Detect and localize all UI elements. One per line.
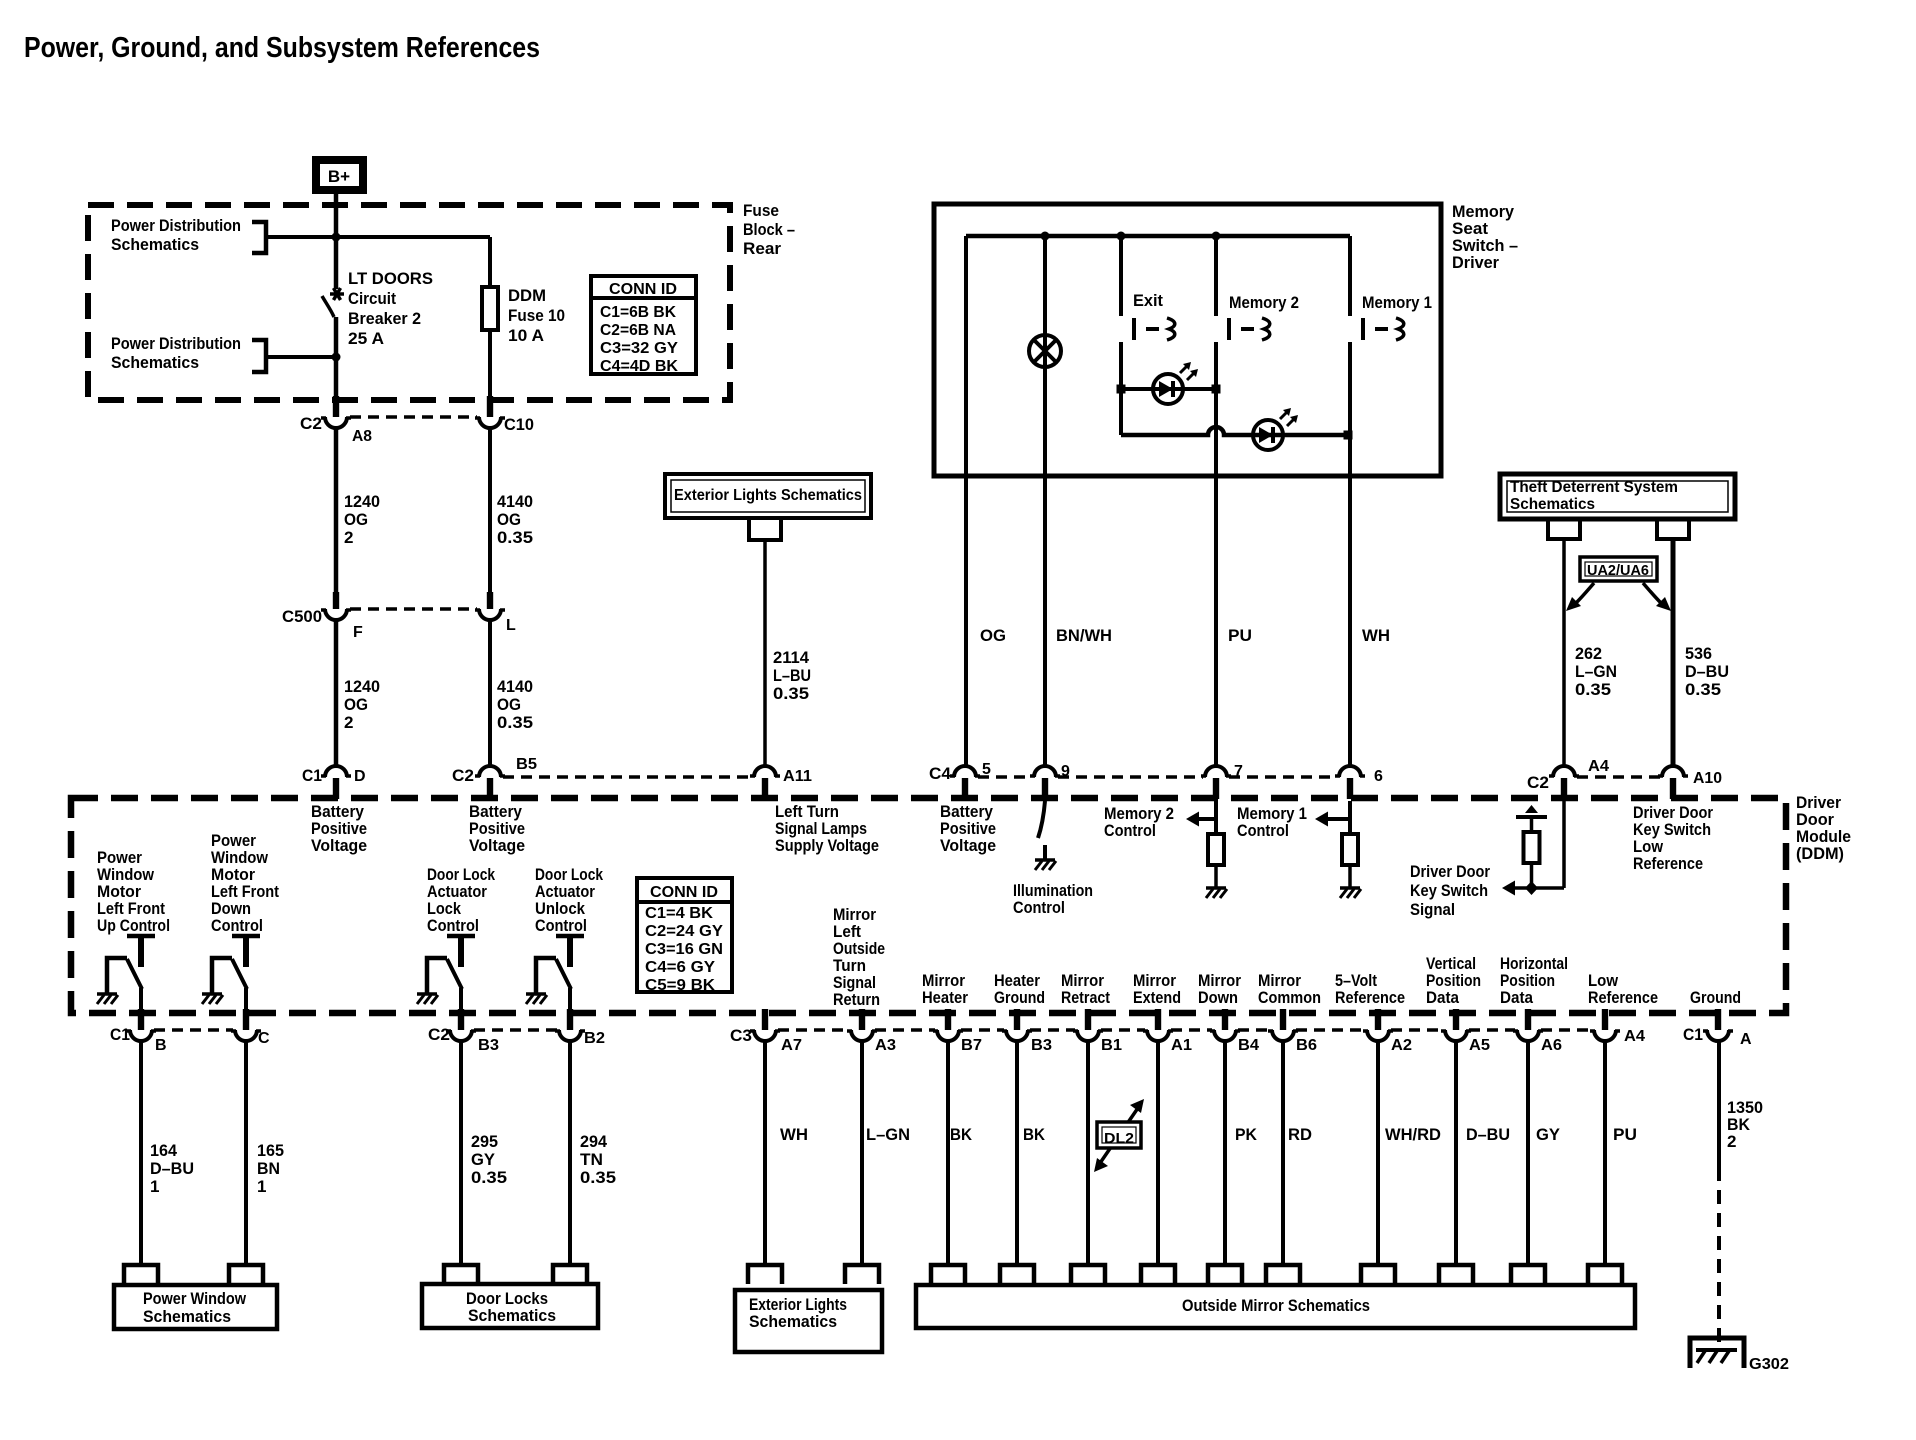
svg-text:Driver Door: Driver Door — [1410, 862, 1490, 881]
svg-text:Exterior Lights Schematics: Exterior Lights Schematics — [674, 487, 862, 504]
svg-text:C500: C500 — [282, 607, 322, 626]
svg-text:2: 2 — [1727, 1132, 1736, 1151]
svg-text:Schematics: Schematics — [1510, 496, 1595, 513]
svg-text:D: D — [354, 768, 366, 785]
svg-text:B: B — [155, 1037, 167, 1054]
svg-text:4140: 4140 — [497, 492, 533, 511]
svg-text:F: F — [353, 624, 363, 641]
svg-text:Power, Ground, and Subsystem R: Power, Ground, and Subsystem References — [24, 32, 540, 64]
svg-text:C2=24 GY: C2=24 GY — [645, 923, 723, 940]
svg-text:TN: TN — [580, 1150, 603, 1169]
svg-text:C3=32 GY: C3=32 GY — [600, 340, 678, 357]
svg-text:C1=4 BK: C1=4 BK — [645, 905, 713, 922]
svg-text:LT DOORS: LT DOORS — [348, 269, 433, 288]
svg-text:Voltage: Voltage — [311, 836, 367, 855]
svg-text:536: 536 — [1685, 644, 1712, 663]
svg-text:Heater: Heater — [922, 988, 968, 1007]
svg-text:A3: A3 — [875, 1037, 896, 1054]
svg-text:BN/WH: BN/WH — [1056, 626, 1112, 645]
svg-text:DDM: DDM — [508, 286, 546, 305]
svg-text:A11: A11 — [783, 768, 812, 785]
svg-text:Outside Mirror Schematics: Outside Mirror Schematics — [1182, 1296, 1370, 1315]
svg-text:C4=4D BK: C4=4D BK — [600, 358, 678, 375]
svg-text:Supply Voltage: Supply Voltage — [775, 836, 879, 855]
svg-text:Retract: Retract — [1061, 988, 1110, 1007]
svg-text:Ground: Ground — [994, 988, 1045, 1007]
svg-text:C2: C2 — [428, 1025, 450, 1044]
svg-text:C3=16 GN: C3=16 GN — [645, 941, 723, 958]
svg-text:G302: G302 — [1749, 1356, 1789, 1373]
svg-text:Fuse: Fuse — [743, 201, 779, 220]
svg-text:WH/RD: WH/RD — [1385, 1125, 1441, 1144]
svg-text:25 A: 25 A — [348, 329, 384, 348]
svg-text:C1: C1 — [110, 1025, 130, 1044]
svg-text:Return: Return — [833, 990, 880, 1009]
svg-text:Common: Common — [1258, 988, 1321, 1007]
svg-text:Reference: Reference — [1633, 854, 1703, 873]
svg-text:Extend: Extend — [1133, 988, 1181, 1007]
svg-text:OG: OG — [497, 695, 521, 714]
svg-text:Theft Deterrent System: Theft Deterrent System — [1510, 479, 1678, 496]
svg-text:Key Switch: Key Switch — [1410, 881, 1488, 900]
svg-text:A10: A10 — [1693, 770, 1722, 787]
svg-text:C3: C3 — [730, 1026, 752, 1045]
svg-text:Rear: Rear — [743, 239, 781, 258]
svg-text:10 A: 10 A — [508, 326, 544, 345]
svg-text:6: 6 — [1374, 768, 1383, 785]
svg-text:Schematics: Schematics — [111, 353, 199, 372]
svg-text:C2: C2 — [452, 766, 474, 785]
svg-text:OG: OG — [497, 510, 521, 529]
svg-text:Schematics: Schematics — [468, 1306, 556, 1325]
svg-text:L–GN: L–GN — [866, 1125, 910, 1144]
svg-text:B6: B6 — [1296, 1037, 1317, 1054]
svg-text:OG: OG — [980, 626, 1006, 645]
svg-text:Power Distribution: Power Distribution — [111, 216, 241, 235]
svg-text:L–GN: L–GN — [1575, 662, 1617, 681]
svg-text:A8: A8 — [352, 428, 372, 445]
svg-text:WH: WH — [1362, 626, 1390, 645]
svg-text:C1: C1 — [302, 766, 322, 785]
svg-text:OG: OG — [344, 510, 368, 529]
svg-text:B7: B7 — [961, 1037, 982, 1054]
svg-text:WH: WH — [780, 1125, 808, 1144]
svg-text:C4: C4 — [929, 764, 952, 783]
svg-text:Voltage: Voltage — [469, 836, 525, 855]
svg-text:Reference: Reference — [1588, 988, 1658, 1007]
svg-text:PU: PU — [1228, 626, 1252, 645]
svg-text:Ground: Ground — [1690, 988, 1741, 1007]
svg-text:GY: GY — [471, 1150, 496, 1169]
svg-text:0.35: 0.35 — [580, 1168, 616, 1187]
svg-text:C1=6B BK: C1=6B BK — [600, 304, 676, 321]
svg-text:GY: GY — [1536, 1125, 1561, 1144]
svg-text:Voltage: Voltage — [940, 836, 996, 855]
svg-text:C4=6 GY: C4=6 GY — [645, 959, 715, 976]
svg-text:A5: A5 — [1469, 1037, 1490, 1054]
svg-text:Breaker 2: Breaker 2 — [348, 309, 421, 328]
svg-text:UA2/UA6: UA2/UA6 — [1587, 562, 1649, 579]
svg-text:A4: A4 — [1588, 758, 1609, 775]
svg-text:Memory 1: Memory 1 — [1362, 293, 1432, 312]
svg-text:C1: C1 — [1683, 1025, 1703, 1044]
svg-text:A7: A7 — [781, 1037, 802, 1054]
svg-text:2114: 2114 — [773, 648, 810, 667]
svg-text:L–BU: L–BU — [773, 666, 811, 685]
svg-text:BK: BK — [950, 1125, 973, 1144]
svg-text:Data: Data — [1500, 988, 1533, 1007]
svg-text:Control: Control — [211, 916, 263, 935]
svg-text:B1: B1 — [1101, 1037, 1122, 1054]
svg-text:295: 295 — [471, 1132, 498, 1151]
svg-text:D–BU: D–BU — [1466, 1125, 1510, 1144]
svg-text:PK: PK — [1235, 1125, 1258, 1144]
svg-text:CONN ID: CONN ID — [609, 281, 677, 298]
svg-text:(DDM): (DDM) — [1796, 844, 1844, 863]
svg-text:BK: BK — [1023, 1125, 1046, 1144]
svg-text:B3: B3 — [478, 1037, 499, 1054]
svg-text:2: 2 — [344, 713, 353, 732]
svg-text:PU: PU — [1613, 1125, 1637, 1144]
svg-text:Fuse 10: Fuse 10 — [508, 306, 565, 325]
svg-text:D–BU: D–BU — [1685, 662, 1729, 681]
svg-text:C: C — [258, 1030, 270, 1047]
svg-text:Circuit: Circuit — [348, 289, 396, 308]
svg-text:B4: B4 — [1238, 1037, 1259, 1054]
svg-text:Schematics: Schematics — [143, 1307, 231, 1326]
svg-text:Exit: Exit — [1133, 291, 1163, 310]
svg-text:L: L — [506, 617, 516, 634]
svg-text:C5=9 BK: C5=9 BK — [645, 977, 715, 994]
svg-text:0.35: 0.35 — [471, 1168, 507, 1187]
svg-text:Control: Control — [1237, 821, 1289, 840]
svg-text:Power Window: Power Window — [143, 1289, 247, 1308]
svg-text:Reference: Reference — [1335, 988, 1405, 1007]
svg-text:4140: 4140 — [497, 677, 533, 696]
svg-text:262: 262 — [1575, 644, 1602, 663]
svg-text:Down: Down — [1198, 988, 1238, 1007]
svg-text:BN: BN — [257, 1159, 280, 1178]
svg-text:Power Distribution: Power Distribution — [111, 334, 241, 353]
svg-text:A4: A4 — [1624, 1028, 1645, 1045]
svg-text:Control: Control — [427, 916, 479, 935]
svg-text:1240: 1240 — [344, 492, 380, 511]
svg-text:Memory 2: Memory 2 — [1229, 293, 1299, 312]
svg-text:165: 165 — [257, 1141, 284, 1160]
svg-text:OG: OG — [344, 695, 368, 714]
svg-text:D–BU: D–BU — [150, 1159, 194, 1178]
svg-text:DL2: DL2 — [1104, 1130, 1134, 1147]
svg-text:Schematics: Schematics — [749, 1312, 837, 1331]
svg-text:2: 2 — [344, 528, 353, 547]
svg-text:164: 164 — [150, 1141, 178, 1160]
svg-text:C2: C2 — [300, 414, 322, 433]
svg-text:C10: C10 — [504, 415, 534, 434]
svg-text:Control: Control — [1013, 898, 1065, 917]
svg-text:1: 1 — [150, 1177, 159, 1196]
svg-text:294: 294 — [580, 1132, 608, 1151]
svg-text:B5: B5 — [516, 756, 537, 773]
svg-text:A1: A1 — [1171, 1037, 1192, 1054]
svg-text:C2: C2 — [1527, 773, 1549, 792]
svg-text:Schematics: Schematics — [111, 235, 199, 254]
svg-text:B+: B+ — [328, 167, 350, 186]
svg-text:A2: A2 — [1391, 1037, 1412, 1054]
svg-text:1: 1 — [257, 1177, 266, 1196]
svg-text:A: A — [1740, 1031, 1752, 1048]
svg-text:Block –: Block – — [743, 220, 795, 239]
svg-text:B3: B3 — [1031, 1037, 1052, 1054]
svg-text:Signal: Signal — [1410, 900, 1455, 919]
svg-text:Up Control: Up Control — [97, 916, 170, 935]
svg-text:1240: 1240 — [344, 677, 380, 696]
svg-text:A6: A6 — [1541, 1037, 1562, 1054]
svg-text:Driver: Driver — [1452, 253, 1499, 272]
svg-text:B2: B2 — [584, 1030, 605, 1047]
svg-text:RD: RD — [1288, 1125, 1312, 1144]
svg-text:Control: Control — [535, 916, 587, 935]
svg-text:0.35: 0.35 — [1575, 680, 1611, 699]
svg-text:0.35: 0.35 — [1685, 680, 1721, 699]
svg-text:0.35: 0.35 — [497, 528, 533, 547]
svg-text:Data: Data — [1426, 988, 1459, 1007]
svg-text:CONN ID: CONN ID — [650, 884, 718, 901]
svg-text:0.35: 0.35 — [497, 713, 533, 732]
svg-text:C2=6B NA: C2=6B NA — [600, 322, 676, 339]
svg-text:0.35: 0.35 — [773, 684, 809, 703]
svg-text:Control: Control — [1104, 821, 1156, 840]
